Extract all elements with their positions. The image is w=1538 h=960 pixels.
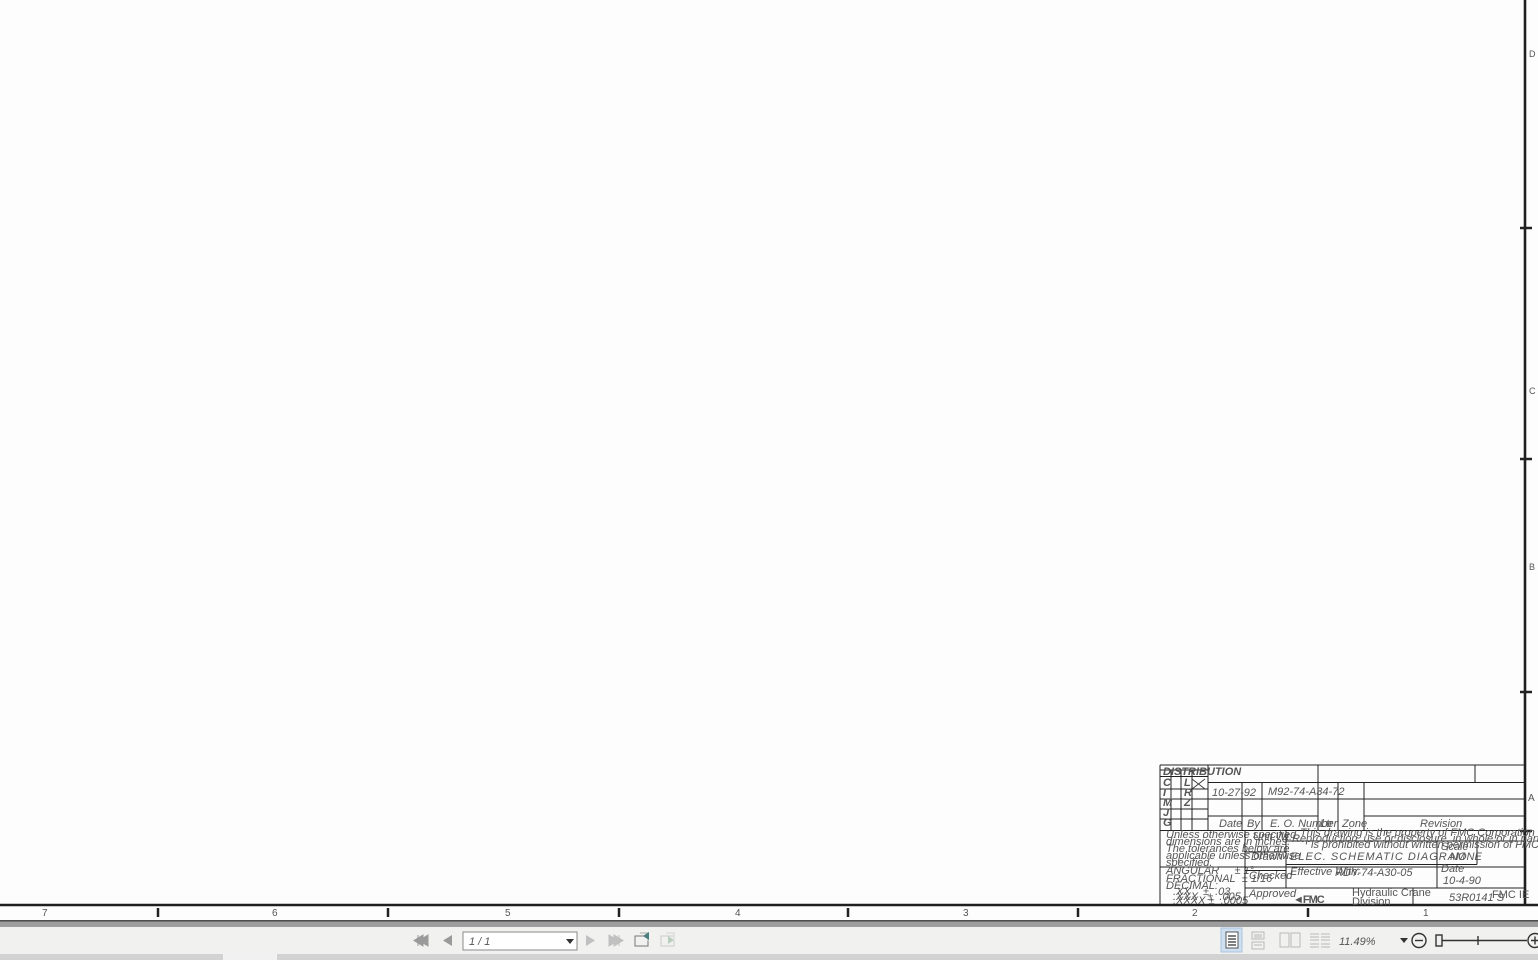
svg-text:is prohibited without written: is prohibited without written permission… (1311, 839, 1538, 851)
svg-text:D: D (1529, 49, 1536, 59)
svg-text:7: 7 (42, 908, 48, 919)
svg-text:Division: Division (1352, 896, 1391, 908)
svg-text:1 / 1: 1 / 1 (469, 936, 490, 948)
svg-text:G: G (1163, 817, 1172, 829)
svg-text:1: 1 (1423, 908, 1429, 919)
sheet bottom border (0, 904, 1538, 907)
svg-text:Approved: Approved (1248, 888, 1297, 900)
svg-text:2: 2 (1192, 908, 1198, 919)
svg-text:53R0141 S: 53R0141 S (1449, 892, 1505, 904)
svg-text:ELEC. SCHEMATIC DIAGRAM: ELEC. SCHEMATIC DIAGRAM (1290, 851, 1466, 863)
svg-text:Drawn: Drawn (1251, 851, 1283, 863)
sheet right border (1524, 0, 1527, 905)
svg-text:◄FMC: ◄FMC (1293, 894, 1325, 906)
svg-text:11.49%: 11.49% (1339, 936, 1376, 948)
svg-text:5: 5 (505, 908, 511, 919)
svg-text:.XXXX ± .0005: .XXXX ± .0005 (1173, 895, 1249, 907)
svg-text:10-27-92: 10-27-92 (1212, 787, 1256, 799)
svg-text:B: B (1529, 562, 1535, 572)
svg-text:M92-74-A34-72: M92-74-A34-72 (1268, 786, 1344, 798)
svg-text:A: A (1528, 793, 1535, 804)
svg-text:Date: Date (1441, 863, 1464, 875)
svg-text:4: 4 (735, 908, 741, 919)
svg-text:RDY-74-A30-05: RDY-74-A30-05 (1335, 867, 1413, 879)
svg-text:C: C (1529, 386, 1536, 396)
svg-text:Checked: Checked (1249, 870, 1293, 882)
svg-text:DISTRIBUTION: DISTRIBUTION (1163, 766, 1242, 778)
title block (1160, 765, 1525, 905)
svg-text:3: 3 (963, 908, 969, 919)
svg-text:Z: Z (1183, 797, 1192, 809)
svg-text:NONE: NONE (1450, 851, 1482, 863)
svg-text:6: 6 (272, 908, 278, 919)
svg-text:10-4-90: 10-4-90 (1443, 875, 1482, 887)
